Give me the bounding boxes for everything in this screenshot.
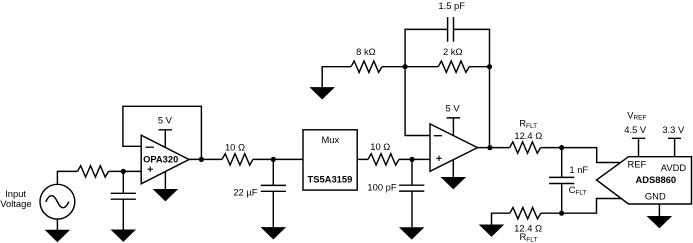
capacitor C4 1.5 pF (405, 17, 489, 67)
resistor R4 8 kOhm (351, 61, 382, 72)
wire U3 output to RFLT (478, 147, 510, 149)
wire R5 to node F (469, 66, 489, 68)
op-amp U3 (430, 124, 478, 171)
svg-text:8 kΩ: 8 kΩ (356, 46, 376, 57)
node C junction dot (271, 157, 276, 162)
resistor R6 RFLT 12.4 Ohm (top) (510, 142, 541, 153)
svg-text:1 nF: 1 nF (569, 164, 588, 175)
capacitor C5 CFLT 1 nF (549, 148, 574, 214)
resistor R5 2 kOhm (438, 61, 469, 72)
wire R7 to ADS input (with step) (541, 199, 621, 214)
wire R6 to ADS input (with step) (541, 148, 621, 163)
svg-text:Mux: Mux (321, 134, 339, 145)
ground under U3 (441, 177, 467, 189)
svg-text:12.4 Ω: 12.4 Ω (514, 130, 542, 141)
wire U3 to ground (452, 160, 454, 177)
op-amp U1 minus sign (146, 146, 154, 148)
wire source bottom to ground (56, 219, 58, 230)
ground under U1 (153, 189, 179, 201)
svg-text:Voltage: Voltage (0, 198, 31, 209)
wire R3 to op-amp U3 (399, 158, 430, 160)
svg-text:12.4 Ω: 12.4 Ω (514, 222, 542, 233)
capacitor C2 22 uF (261, 159, 286, 227)
wire U1 to ground (164, 172, 166, 189)
node G junction dot (U3 output) (487, 145, 492, 150)
node F junction dot (487, 64, 492, 69)
op-amp U3 minus sign (434, 135, 442, 137)
node B junction dot (U1 output) (199, 157, 204, 162)
svg-text:5 V: 5 V (158, 114, 173, 125)
wire ground to resistor R7 (492, 213, 510, 224)
resistor R7 RFLT 12.4 Ohm (bottom) (510, 208, 541, 219)
node E junction dot (403, 64, 408, 69)
5V supply U3 (446, 103, 461, 136)
op-amp U1 OPA320 (141, 135, 189, 184)
svg-text:100 pF: 100 pF (367, 182, 396, 193)
wire U1 output to resistor R2 (189, 158, 222, 160)
node A junction dot (121, 169, 126, 174)
voltage source V1 (Input Voltage) (40, 184, 75, 219)
wire 8k to ground drop (322, 67, 351, 87)
resistor Rs (input) (78, 166, 109, 177)
resistor R3 10 Ohm (368, 154, 399, 165)
svg-text:TS5A3159: TS5A3159 (307, 173, 352, 184)
ground under C3 (399, 227, 425, 239)
wire R2 to mux (253, 158, 303, 160)
AVDD pin with 3.3V supply (662, 124, 685, 157)
svg-text:ADS8860: ADS8860 (635, 174, 676, 185)
ground under C2 (261, 227, 287, 239)
svg-text:5 V: 5 V (446, 103, 461, 114)
capacitor C1 (input shunt) (111, 171, 136, 229)
svg-text:1.5 pF: 1.5 pF (438, 0, 465, 11)
REF pin with VREF 4.5V supply (624, 109, 647, 156)
svg-text:2 kΩ: 2 kΩ (443, 46, 463, 57)
svg-text:4.5 V: 4.5 V (624, 124, 647, 135)
svg-text:AVDD: AVDD (661, 162, 687, 173)
mux U2 TS5A3159 box (303, 130, 357, 190)
svg-text:OPA320: OPA320 (143, 154, 178, 165)
node D junction dot (410, 157, 415, 162)
ADC U4 ADS8860 (597, 157, 692, 204)
svg-text:10 Ω: 10 Ω (225, 141, 245, 152)
resistor R2 10 Ohm (222, 154, 253, 165)
wire mux to resistor R3 (358, 158, 368, 160)
wire source top to input resistor (57, 171, 77, 184)
svg-text:RFLT: RFLT (519, 118, 537, 130)
svg-text:3.3 V: 3.3 V (662, 124, 685, 135)
svg-text:22 µF: 22 µF (233, 187, 257, 198)
ground under source (45, 230, 71, 242)
wire node E to R5 (405, 66, 438, 68)
ground under ADS8860 (647, 216, 673, 228)
svg-text:VREF: VREF (627, 109, 646, 121)
op-amp U3 plus sign (436, 156, 441, 161)
wire input resistor to node A (109, 170, 142, 172)
GND pin wire (658, 204, 660, 216)
svg-text:CFLT: CFLT (569, 184, 587, 196)
node H junction dot (559, 145, 564, 150)
ground under C1 (111, 230, 137, 242)
wire node F down to U3 output (489, 67, 491, 148)
wire U1 feedback loop (123, 106, 201, 159)
node I junction dot (559, 211, 564, 216)
wire 8k to node E (382, 66, 405, 68)
5V supply U1 (158, 114, 173, 147)
capacitor C3 100 pF (399, 159, 424, 227)
ground at 8k left (309, 87, 335, 99)
ground left of bottom RFLT (479, 225, 505, 237)
svg-text:10 Ω: 10 Ω (370, 141, 390, 152)
svg-text:REF: REF (628, 159, 647, 170)
svg-text:GND: GND (645, 191, 666, 202)
wire node E down to U3 minus input (405, 67, 430, 136)
op-amp U1 plus sign (148, 167, 153, 172)
